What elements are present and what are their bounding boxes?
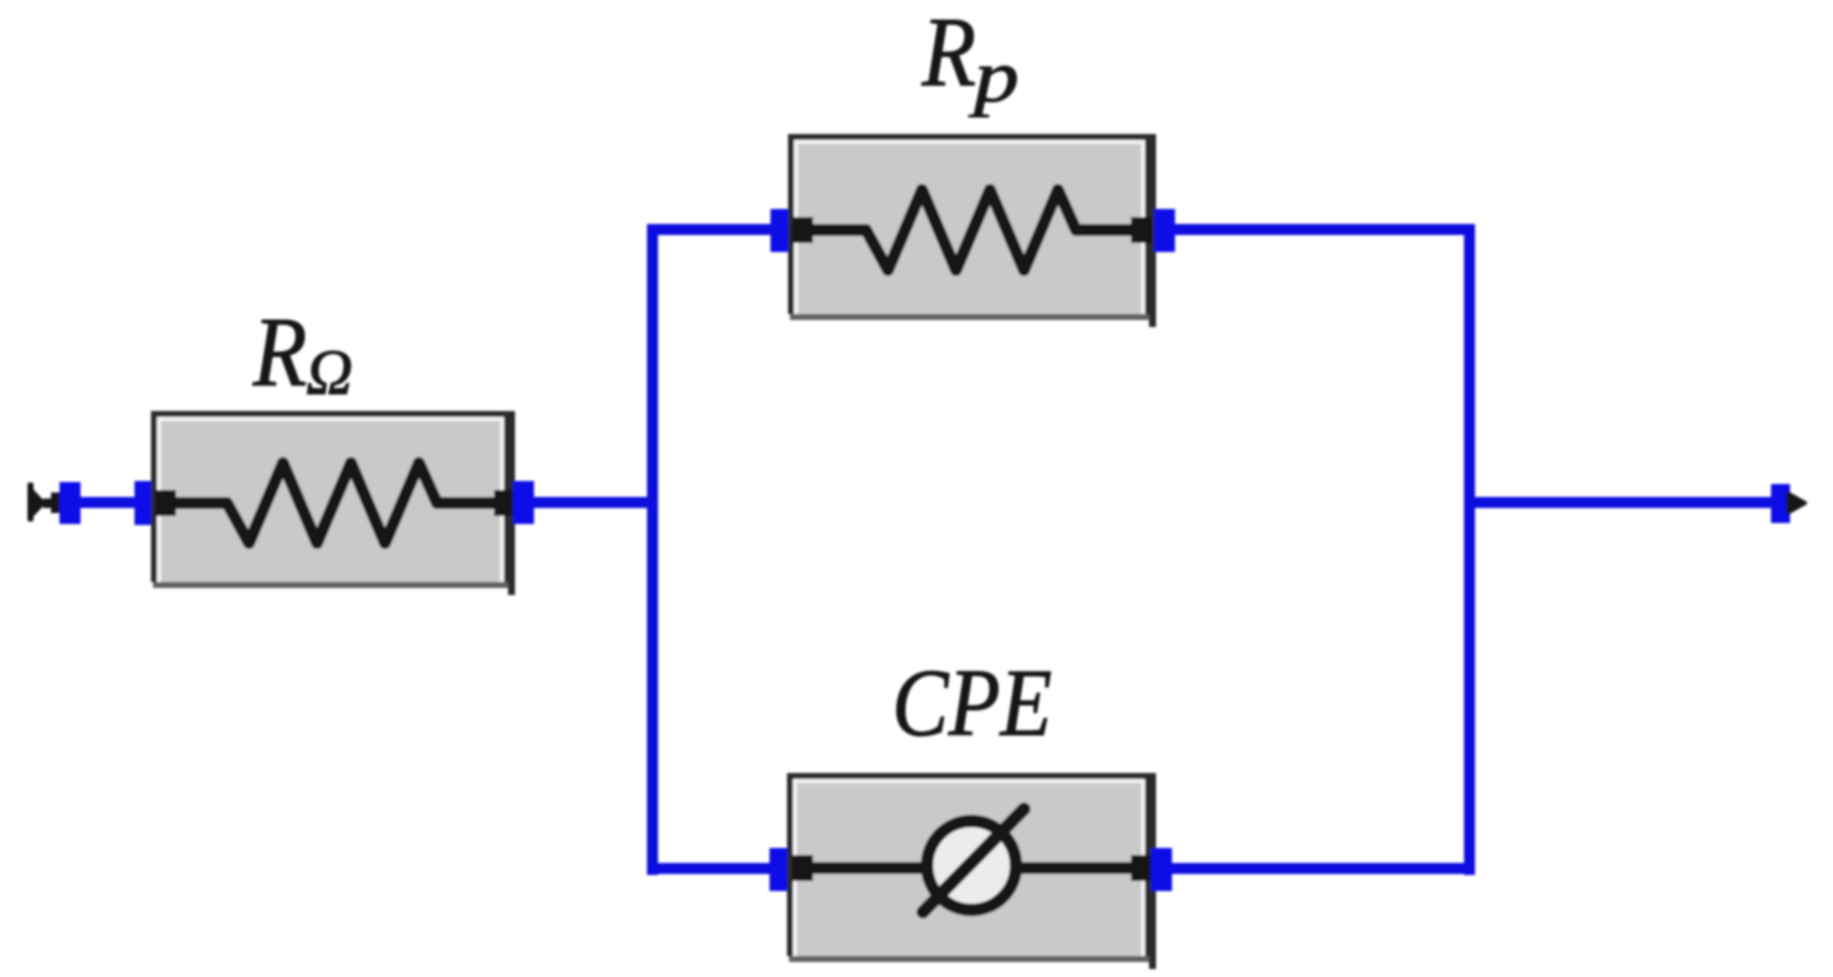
input terminal arrow xyxy=(28,483,63,522)
node RΩ right xyxy=(513,481,534,524)
wire right vertical xyxy=(1464,224,1475,875)
wire bottom-left horizontal xyxy=(647,863,780,874)
wire output segment xyxy=(1464,497,1775,508)
node input-2 (RΩ left) xyxy=(135,481,157,525)
svg-text:R: R xyxy=(921,0,976,107)
node output xyxy=(1771,484,1790,523)
svg-text:CPE: CPE xyxy=(892,649,1052,756)
node Rp left xyxy=(771,209,792,252)
svg-text:Ω: Ω xyxy=(306,337,353,409)
wire top-right horizontal xyxy=(1160,224,1475,235)
resistor RΩ xyxy=(151,411,515,595)
CPE element xyxy=(787,773,1156,969)
resistor Rp xyxy=(788,134,1156,327)
node Rp right xyxy=(1154,209,1175,252)
node input-1 xyxy=(60,482,81,524)
node CPE left xyxy=(770,848,791,891)
output terminal arrowhead xyxy=(1788,494,1805,513)
svg-text:p: p xyxy=(968,36,1019,118)
wire top-left horizontal xyxy=(647,224,781,235)
wire RΩ-to-junction xyxy=(520,497,658,508)
node CPE right xyxy=(1151,848,1172,891)
wire input segment xyxy=(60,497,152,508)
wire left vertical branch xyxy=(647,224,658,875)
wire bottom-right horizontal xyxy=(1158,863,1475,874)
svg-text:R: R xyxy=(252,296,307,407)
